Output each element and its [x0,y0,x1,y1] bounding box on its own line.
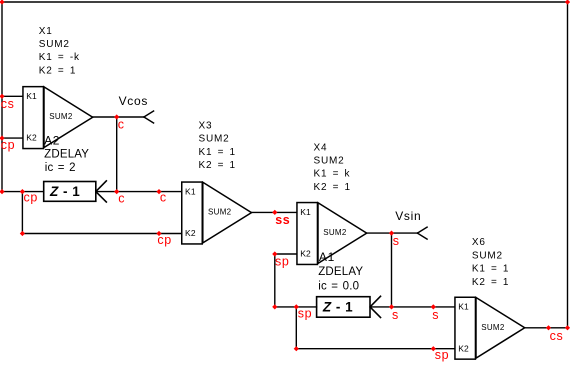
svg-text:s: s [392,308,399,322]
svg-text:SUM2: SUM2 [39,39,70,50]
svg-text:K1: K1 [26,91,37,101]
svg-text:K2: K2 [300,249,311,259]
svg-text:Z - 1: Z - 1 [322,299,353,314]
svg-text:cs: cs [1,97,15,111]
svg-text:K2 = 1: K2 = 1 [39,65,76,76]
svg-text:ss: ss [275,213,290,227]
svg-text:K1 = 1: K1 = 1 [199,147,236,158]
svg-text:Vcos: Vcos [119,94,148,108]
svg-text:X1: X1 [39,26,53,37]
svg-text:A2: A2 [44,134,60,148]
svg-text:s: s [393,234,400,248]
svg-text:Vsin: Vsin [395,209,421,223]
svg-text:K2 = 1: K2 = 1 [472,277,509,288]
svg-text:sp: sp [275,254,289,268]
svg-text:sp: sp [298,307,312,321]
svg-text:SUM2: SUM2 [208,208,232,217]
svg-text:c: c [118,191,125,205]
svg-text:K2: K2 [26,133,37,143]
svg-text:cp: cp [1,138,15,152]
svg-text:K1: K1 [300,207,311,217]
svg-text:K2 = 1: K2 = 1 [314,182,351,193]
svg-text:K1: K1 [458,302,469,312]
svg-text:X6: X6 [472,237,486,248]
svg-text:ZDELAY: ZDELAY [44,149,89,161]
svg-text:cs: cs [550,329,564,343]
svg-text:ZDELAY: ZDELAY [318,266,363,278]
svg-text:K1 = -k: K1 = -k [39,52,80,63]
svg-text:K2: K2 [458,343,469,353]
svg-text:A1: A1 [319,250,335,264]
svg-text:cp: cp [157,233,171,247]
svg-text:K2: K2 [185,228,196,238]
svg-text:SUM2: SUM2 [199,134,230,145]
svg-text:ic = 0.0: ic = 0.0 [318,281,359,293]
svg-text:c: c [160,191,167,205]
svg-text:SUM2: SUM2 [49,112,73,121]
svg-text:K1 = 1: K1 = 1 [472,264,509,275]
svg-text:ic = 2: ic = 2 [45,162,76,174]
svg-text:Z - 1: Z - 1 [49,184,80,199]
svg-text:SUM2: SUM2 [323,228,347,237]
svg-text:SUM2: SUM2 [472,250,503,261]
svg-text:SUM2: SUM2 [481,323,505,332]
svg-text:cp: cp [24,191,38,205]
svg-text:X4: X4 [314,142,328,153]
svg-text:s: s [432,308,439,322]
svg-text:X3: X3 [199,121,213,132]
svg-text:SUM2: SUM2 [314,156,345,167]
svg-text:K2 = 1: K2 = 1 [199,160,236,171]
svg-text:c: c [118,118,125,132]
svg-text:K1: K1 [185,186,196,196]
svg-text:K1 = k: K1 = k [314,169,351,180]
svg-text:sp: sp [435,348,449,362]
